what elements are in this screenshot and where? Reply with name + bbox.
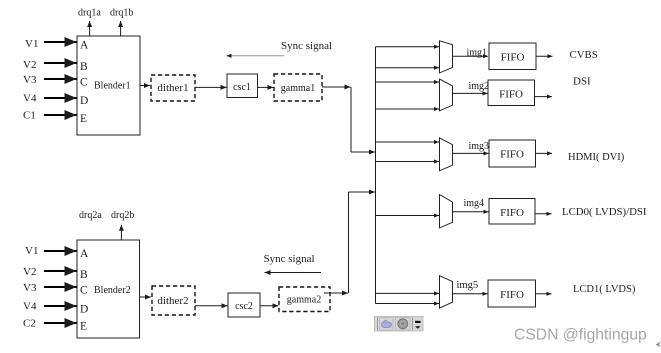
bus stub to mux5 input A bbox=[376, 292, 440, 294]
svg-text:Blender2: Blender2 bbox=[94, 285, 131, 296]
cursor arrow bbox=[656, 342, 661, 348]
output drq1b arrow bbox=[110, 8, 133, 37]
bus stub to mux4 input bbox=[376, 215, 440, 217]
fifo F3 bbox=[489, 140, 536, 167]
output drq1a arrow bbox=[78, 8, 101, 37]
blender U2 box bbox=[77, 240, 140, 338]
svg-text:B: B bbox=[80, 269, 88, 281]
output drq2b arrow bbox=[79, 210, 134, 240]
wire csc1 to gamma1 bbox=[258, 86, 274, 88]
svg-text:V2: V2 bbox=[23, 266, 36, 278]
csc2 block bbox=[228, 293, 260, 317]
bus stub to mux1 input A bbox=[376, 46, 440, 48]
wire dither2 to csc2 bbox=[195, 305, 228, 307]
svg-text:drq1a: drq1a bbox=[78, 8, 101, 19]
svg-text:DSI: DSI bbox=[573, 75, 591, 87]
bus stub to mux5 input B bbox=[376, 303, 440, 305]
svg-text:HDMI( DVI): HDMI( DVI) bbox=[568, 152, 625, 163]
dither1 block bbox=[151, 75, 195, 101]
svg-text:Sync signal: Sync signal bbox=[264, 253, 315, 265]
svg-text:C: C bbox=[80, 77, 88, 89]
mux M2 bbox=[440, 79, 453, 111]
input V4 (blender2) bbox=[23, 301, 77, 313]
gamma1 block bbox=[274, 74, 322, 101]
wire mux5 to fifo5, net img5 bbox=[453, 280, 488, 294]
svg-text:C: C bbox=[80, 285, 88, 297]
input V1 (blender1) bbox=[25, 38, 77, 50]
svg-text:gamma1: gamma1 bbox=[281, 83, 315, 94]
bus stub to mux1 input B bbox=[376, 67, 440, 69]
blender U1 box bbox=[77, 36, 140, 135]
svg-text:FIFO: FIFO bbox=[500, 149, 524, 161]
svg-text:V2: V2 bbox=[23, 59, 36, 71]
svg-text:C2: C2 bbox=[23, 318, 36, 330]
bus stub to mux3 input A bbox=[376, 141, 440, 143]
sync signal 2 arrow bbox=[265, 272, 322, 274]
svg-text:E: E bbox=[80, 321, 87, 333]
svg-text:A: A bbox=[80, 40, 89, 52]
wire fifo2 to DSI output bbox=[535, 96, 553, 98]
svg-text:C1: C1 bbox=[23, 110, 36, 122]
wire fifo5 to LCD1 output bbox=[536, 293, 552, 295]
svg-text:LCD0( LVDS)/DSI: LCD0( LVDS)/DSI bbox=[562, 206, 647, 218]
input V2 (blender2) bbox=[23, 266, 77, 278]
svg-text:img4: img4 bbox=[464, 198, 485, 209]
fifo F5 bbox=[488, 280, 536, 307]
svg-text:FIFO: FIFO bbox=[501, 52, 525, 64]
svg-text:FIFO: FIFO bbox=[500, 289, 524, 301]
csc1 block bbox=[227, 74, 258, 98]
input V4 (blender1) bbox=[23, 93, 77, 105]
svg-text:B: B bbox=[80, 61, 88, 73]
bus stub to mux2 input B bbox=[376, 108, 440, 110]
sync signal 1 arrow bbox=[227, 55, 285, 57]
svg-text:dither1: dither1 bbox=[157, 82, 188, 94]
wire mux3 to fifo3, net img3 bbox=[453, 141, 490, 154]
fifo F1 bbox=[489, 43, 536, 70]
mux M3 bbox=[440, 138, 453, 171]
svg-text:dither2: dither2 bbox=[157, 295, 188, 307]
svg-text:drq1b: drq1b bbox=[110, 8, 133, 19]
wire fifo1 to CVBS output bbox=[536, 55, 553, 57]
svg-text:Blender1: Blender1 bbox=[94, 81, 131, 92]
svg-text:V3: V3 bbox=[23, 74, 37, 86]
svg-text:csc2: csc2 bbox=[235, 301, 253, 312]
svg-text:V1: V1 bbox=[25, 245, 38, 257]
svg-text:csc1: csc1 bbox=[233, 82, 251, 93]
mux M1 bbox=[440, 41, 453, 73]
wire gamma2 to bus bbox=[324, 192, 375, 293]
svg-text:gamma2: gamma2 bbox=[287, 295, 321, 306]
svg-text:img3: img3 bbox=[469, 141, 490, 152]
wire gamma1 to bus bbox=[322, 87, 375, 152]
wire dither1 to csc1 bbox=[195, 86, 227, 88]
wire mux2 to fifo2, net img2 bbox=[453, 81, 490, 93]
toolbar bbox=[375, 317, 424, 332]
wire blender2 to dither2 bbox=[140, 296, 152, 298]
svg-text:FIFO: FIFO bbox=[499, 88, 523, 100]
svg-text:V4: V4 bbox=[23, 93, 37, 105]
svg-text:CVBS: CVBS bbox=[570, 49, 598, 61]
wire mux4 to fifo4, net img4 bbox=[453, 198, 489, 212]
fifo F2 bbox=[488, 80, 535, 106]
bus stub to mux2 input A bbox=[376, 81, 440, 83]
svg-text:drq2a: drq2a bbox=[79, 210, 102, 221]
svg-text:drq2b: drq2b bbox=[111, 210, 134, 221]
svg-text:LCD1( LVDS): LCD1( LVDS) bbox=[573, 284, 636, 295]
input C1 (blender1) bbox=[23, 110, 77, 122]
svg-text:img2: img2 bbox=[469, 81, 490, 92]
bus vertical line bbox=[375, 47, 377, 304]
mux M4 bbox=[440, 195, 453, 228]
input C2 (blender2) bbox=[23, 318, 77, 330]
svg-text:V1: V1 bbox=[25, 38, 38, 50]
svg-text:E: E bbox=[80, 113, 87, 125]
svg-text:A: A bbox=[80, 248, 89, 260]
wire fifo3 to HDMI output bbox=[536, 152, 553, 154]
fifo F4 bbox=[489, 199, 535, 225]
wire fifo4 to LCD0 output bbox=[535, 213, 552, 215]
svg-text:D: D bbox=[80, 95, 88, 107]
dither2 block bbox=[152, 286, 195, 315]
bus stub to mux3 input B bbox=[376, 161, 440, 163]
mux M5 bbox=[440, 276, 453, 308]
svg-text:img1: img1 bbox=[467, 47, 488, 58]
input V1 (blender2) bbox=[25, 245, 77, 257]
svg-text:D: D bbox=[80, 304, 88, 316]
wire blender1 to dither1 bbox=[140, 85, 150, 87]
input V2 (blender1) bbox=[23, 59, 77, 71]
svg-text:FIFO: FIFO bbox=[500, 207, 524, 219]
wire mux1 to fifo1, net img1 bbox=[453, 47, 489, 58]
svg-text:V4: V4 bbox=[23, 301, 37, 313]
svg-text:V3: V3 bbox=[23, 282, 37, 294]
wire csc2 to gamma2 bbox=[260, 305, 279, 307]
svg-text:CSDN @fightingup: CSDN @fightingup bbox=[514, 327, 647, 344]
svg-text:Sync signal: Sync signal bbox=[281, 40, 332, 52]
input V3 (blender2) bbox=[23, 282, 77, 294]
svg-text:img5: img5 bbox=[457, 280, 479, 291]
input V3 (blender1) bbox=[23, 74, 77, 86]
gamma2 block bbox=[279, 287, 330, 312]
